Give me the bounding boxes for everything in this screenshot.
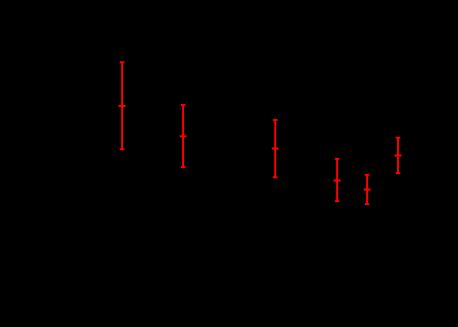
wire: vertical error line 4 [336,159,338,201]
bottom cap 3 [273,176,278,178]
bottom cap 2 [181,166,186,168]
bottom cap 6 [396,172,401,174]
top cap 3 [273,119,278,121]
error bar point 3 [272,120,279,177]
mean marker 4 [334,179,341,181]
wire: vertical error line 1 [121,62,123,149]
top cap 4 [335,158,340,160]
top cap 2 [181,104,186,106]
mean marker 1 [119,105,126,107]
error bar point 4 [334,159,341,201]
mean marker 5 [364,188,371,190]
error bar point 2 [180,105,187,167]
error bar point 1 [119,62,126,149]
bottom cap 1 [120,148,125,150]
bottom cap 5 [365,203,370,205]
mean marker 3 [272,147,279,149]
bottom cap 4 [335,200,340,202]
mean marker 6 [395,154,402,156]
wire: vertical error line 2 [182,105,184,167]
top cap 1 [120,61,125,63]
error bar point 6 [395,138,402,174]
mean marker 2 [180,135,187,137]
top cap 6 [396,137,401,139]
top cap 5 [365,174,370,176]
wire: vertical error line 3 [274,120,276,177]
wire: vertical error line 5 [366,175,368,204]
wire: vertical error line 6 [397,138,399,174]
error bar point 5 [364,175,371,204]
